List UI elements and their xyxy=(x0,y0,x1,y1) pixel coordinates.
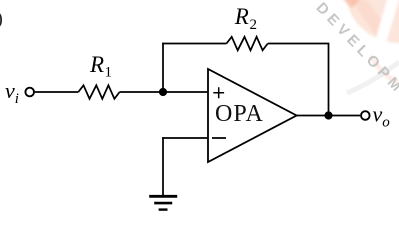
wire down to ground xyxy=(162,137,164,196)
node vo terminal xyxy=(361,111,370,120)
resistor R2 xyxy=(227,37,268,51)
wire minus input to ground branch xyxy=(162,137,207,139)
svg-text:1: 1 xyxy=(105,65,113,81)
svg-text:OPA: OPA xyxy=(215,101,264,127)
svg-text:vo: vo xyxy=(373,101,391,130)
svg-text:): ) xyxy=(0,9,3,30)
watermark logo inner stripe xyxy=(351,0,386,37)
svg-text:R: R xyxy=(89,52,104,77)
wire op-amp output to vo xyxy=(297,115,360,117)
svg-text:R: R xyxy=(234,4,249,29)
ground xyxy=(149,195,177,198)
wire down to output node xyxy=(328,44,330,116)
watermark faint outer arc xyxy=(347,62,399,93)
wire R2 to output branch xyxy=(268,43,330,45)
resistor R1 xyxy=(78,85,119,99)
op-amp U1 triangle xyxy=(208,69,297,162)
svg-text:vi: vi xyxy=(5,78,19,107)
wire node A up xyxy=(162,43,164,93)
watermark logo dark wedge xyxy=(341,0,361,8)
wire vi to R1 xyxy=(35,91,79,93)
watermark logo white band notch xyxy=(375,0,399,46)
watermark logo outer ring arc xyxy=(371,56,399,83)
watermark logo shapes xyxy=(341,0,399,84)
wire R1 to op-amp + input xyxy=(120,91,208,93)
node B output junction dot xyxy=(324,111,332,119)
svg-text:2: 2 xyxy=(250,17,258,33)
watermark logo circle segment xyxy=(345,0,399,43)
node A junction dot xyxy=(159,88,167,96)
op-amp minus input sign xyxy=(212,137,226,139)
node vi terminal xyxy=(25,88,34,97)
wire top left to R2 xyxy=(162,43,226,45)
op-amp plus input sign xyxy=(213,87,224,98)
